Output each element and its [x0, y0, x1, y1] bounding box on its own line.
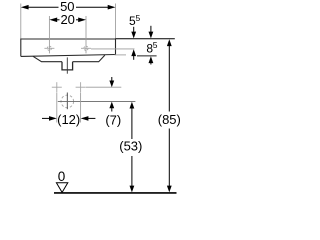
svg-text:(12): (12) — [57, 112, 80, 127]
svg-text:(85): (85) — [158, 112, 181, 127]
svg-text:5: 5 — [136, 13, 141, 23]
svg-text:(7): (7) — [105, 112, 121, 127]
svg-text:0: 0 — [58, 169, 66, 184]
svg-text:20: 20 — [60, 12, 74, 27]
svg-text:(53): (53) — [119, 139, 142, 154]
svg-text:5: 5 — [153, 40, 158, 50]
